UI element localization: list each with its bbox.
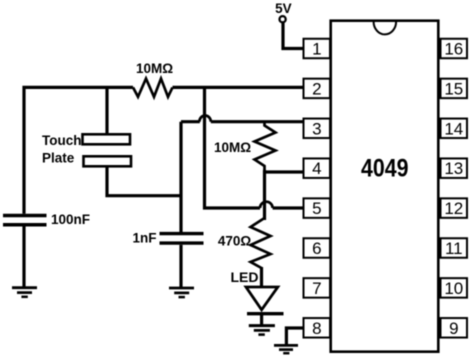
- svg-text:470Ω: 470Ω: [218, 234, 252, 249]
- svg-text:10MΩ: 10MΩ: [214, 140, 251, 155]
- svg-text:100nF: 100nF: [51, 212, 90, 227]
- wire 5V to pin 1: [283, 22, 304, 48]
- wire hop over vertical at x=266: [260, 202, 273, 208]
- resistor R1 10M horizontal: [133, 79, 173, 97]
- pin 10: [441, 278, 468, 298]
- ground C1: [12, 288, 37, 297]
- svg-text:Touch: Touch: [42, 133, 82, 148]
- pin 7: [304, 278, 331, 298]
- LED D1: [246, 287, 284, 314]
- ground pin 8: [274, 345, 298, 353]
- wire pin2-net drop at x=204.5 down to pin 5 wire: [205, 87, 261, 208]
- pin 2: [304, 79, 331, 99]
- wire C1 to ground: [22, 226, 25, 287]
- resistor R3 470: [251, 218, 271, 268]
- wire pin 3 net right segment to pin 3: [211, 120, 304, 123]
- ground C2: [169, 288, 194, 297]
- svg-text:5V: 5V: [275, 1, 292, 16]
- wire R2 bottom through hop to R3 top: [263, 170, 266, 220]
- wire pin 8 to ground: [286, 328, 303, 345]
- resistor R2 10M vertical: [255, 122, 276, 172]
- pin 16: [441, 39, 468, 59]
- pin 14: [441, 119, 468, 139]
- svg-text:5: 5: [312, 199, 321, 218]
- svg-text:16: 16: [444, 40, 463, 59]
- svg-text:3: 3: [312, 119, 321, 138]
- svg-text:14: 14: [444, 119, 463, 138]
- IC U1 4049 body: [331, 21, 439, 352]
- pin 4: [304, 158, 331, 178]
- wire LED to ground: [260, 315, 263, 325]
- wire R1 to pin 2: [173, 86, 304, 89]
- svg-text:10MΩ: 10MΩ: [136, 61, 173, 76]
- pin 13: [441, 158, 468, 178]
- wire touch plate drop at x=107: [105, 87, 108, 134]
- touch plate bottom bar: [84, 156, 132, 166]
- svg-text:12: 12: [444, 199, 463, 218]
- wire C2 to ground: [179, 245, 182, 288]
- touch plate top bar: [83, 134, 131, 144]
- pin 1: [304, 39, 331, 59]
- svg-text:15: 15: [444, 79, 463, 98]
- wire hop to pin 5: [273, 206, 304, 209]
- wire pin 3 net left segment: [181, 120, 200, 123]
- svg-text:Plate: Plate: [42, 151, 75, 166]
- wire top net left: vertical to C1 and horizontal to R1: [24, 87, 133, 213]
- svg-text:1nF: 1nF: [133, 231, 157, 246]
- wire pin 4: [265, 170, 304, 173]
- svg-text:7: 7: [312, 279, 321, 298]
- pin 11: [441, 238, 468, 258]
- pin 8: [304, 318, 331, 338]
- svg-text:1: 1: [312, 40, 321, 59]
- pin 5: [304, 198, 331, 218]
- pin 3: [304, 119, 331, 139]
- pin 15: [441, 79, 468, 99]
- svg-text:9: 9: [449, 319, 458, 338]
- pin 6: [304, 238, 331, 258]
- svg-text:11: 11: [445, 239, 463, 258]
- svg-text:8: 8: [312, 319, 321, 338]
- wire R3 to LED: [260, 267, 263, 287]
- wire hop over vertical at x=205: [199, 115, 210, 121]
- capacitor C1 100nF: [3, 216, 47, 225]
- 5V supply terminal: [275, 1, 292, 22]
- svg-text:2: 2: [312, 79, 321, 98]
- svg-text:13: 13: [444, 159, 463, 178]
- svg-text:4049: 4049: [361, 155, 409, 183]
- capacitor C2 1nF: [160, 234, 204, 244]
- wire touch bottom bar to node: [107, 167, 181, 196]
- ground LED: [249, 326, 275, 335]
- pin 9: [441, 318, 468, 338]
- svg-text:6: 6: [312, 239, 321, 258]
- svg-text:10: 10: [444, 279, 463, 298]
- wire node vertical x=181 (up to pin3 net, down to C2): [179, 122, 182, 232]
- svg-text:LED: LED: [231, 269, 259, 285]
- pin 12: [441, 198, 468, 218]
- svg-text:4: 4: [312, 159, 321, 178]
